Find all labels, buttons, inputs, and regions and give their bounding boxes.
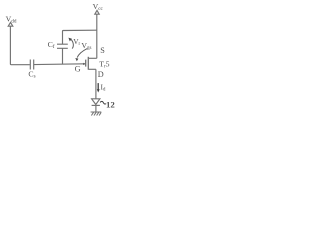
svg-text:Cf: Cf <box>48 40 55 50</box>
svg-text:Vcc: Vcc <box>93 2 104 12</box>
arrow Vgs curved <box>77 49 87 58</box>
transistor Tr5 source lead <box>88 57 96 59</box>
svg-text:Tr5: Tr5 <box>99 59 109 69</box>
wire Cf branch vertical lower <box>62 48 64 64</box>
terminal Vdd <box>8 22 13 26</box>
svg-text:Vr: Vr <box>73 37 80 47</box>
capacitor Cf <box>57 44 68 48</box>
arrow Vr curved <box>70 39 73 49</box>
diode 12 cathode bar <box>92 104 100 106</box>
wire main horizontal to gate <box>34 63 86 66</box>
ground <box>91 112 102 116</box>
wire Cf to top rail <box>63 30 97 44</box>
transistor Tr5 channel bar <box>87 57 89 70</box>
svg-text:Cs: Cs <box>28 70 35 80</box>
svg-text:S: S <box>100 46 105 55</box>
terminal Vcc <box>95 10 99 14</box>
wire Vcc vertical <box>96 14 98 58</box>
svg-text:Vgs: Vgs <box>81 41 91 51</box>
leader to 12 <box>100 101 106 104</box>
capacitor Cs <box>30 60 33 70</box>
transistor Tr5 gate bar <box>85 60 87 67</box>
svg-text:G: G <box>75 65 81 74</box>
transistor Tr5 drain lead <box>88 68 96 70</box>
svg-text:Vdd: Vdd <box>6 14 17 24</box>
svg-text:Id: Id <box>101 82 106 92</box>
wire drain vertical <box>95 69 97 99</box>
svg-text:12: 12 <box>106 100 115 110</box>
wire Vdd vertical <box>10 26 30 64</box>
diode 12 triangle <box>92 99 100 105</box>
wire diode to ground <box>95 105 97 112</box>
arrow current Id <box>97 83 99 90</box>
svg-text:D: D <box>98 70 104 79</box>
gate junction blob <box>83 63 85 65</box>
